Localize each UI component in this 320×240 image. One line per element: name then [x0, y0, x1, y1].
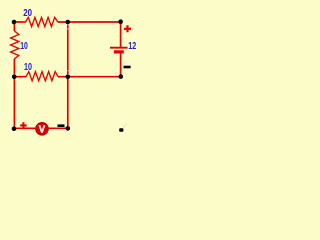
node H bottom-left — [12, 126, 17, 131]
speck marks near node I — [124, 124, 127, 127]
node A top-left — [12, 20, 17, 25]
wire left vertical lower — [13, 59, 15, 129]
voltmeter source circle — [36, 123, 49, 136]
battery V1 bottom plate — [114, 50, 124, 53]
resistor R2 10 ohm (left vertical) — [11, 31, 19, 59]
node B top-right — [118, 19, 123, 24]
node D middle-left — [12, 75, 17, 80]
svg-text:20: 20 — [23, 8, 32, 19]
source VM minus sign — [58, 124, 65, 127]
svg-text:10: 10 — [24, 62, 32, 73]
wire bottom-left segment — [14, 127, 36, 129]
battery V1 top plate — [110, 47, 128, 49]
node F middle-right — [119, 74, 124, 79]
wire center vertical — [67, 22, 69, 129]
wire top-left segment — [14, 21, 26, 23]
ghost highlight above node E — [66, 71, 70, 75]
wire left vertical upper — [13, 22, 15, 31]
wire middle-right segment — [58, 76, 121, 78]
ghost highlight under node C — [66, 25, 70, 29]
resistor R3 10 ohm (middle) — [26, 72, 58, 81]
source VM plus sign — [20, 122, 27, 129]
wire middle-left segment — [14, 76, 26, 78]
svg-text:12: 12 — [128, 41, 136, 52]
wire bottom-right segment — [48, 127, 68, 129]
wire top-right segment — [58, 21, 121, 23]
node E middle-center — [66, 75, 71, 80]
node C top-middle — [66, 20, 71, 25]
battery V1 plus sign — [124, 25, 131, 32]
battery V1 minus sign — [124, 66, 131, 69]
wire right vertical lower — [120, 54, 122, 77]
svg-text:10: 10 — [20, 41, 28, 52]
node I isolated bottom-right — [119, 128, 123, 132]
node G bottom-middle — [66, 126, 71, 131]
svg-text:V: V — [39, 125, 46, 136]
resistor R1 20 ohm (top) — [26, 17, 58, 26]
wire right vertical upper — [120, 22, 122, 47]
